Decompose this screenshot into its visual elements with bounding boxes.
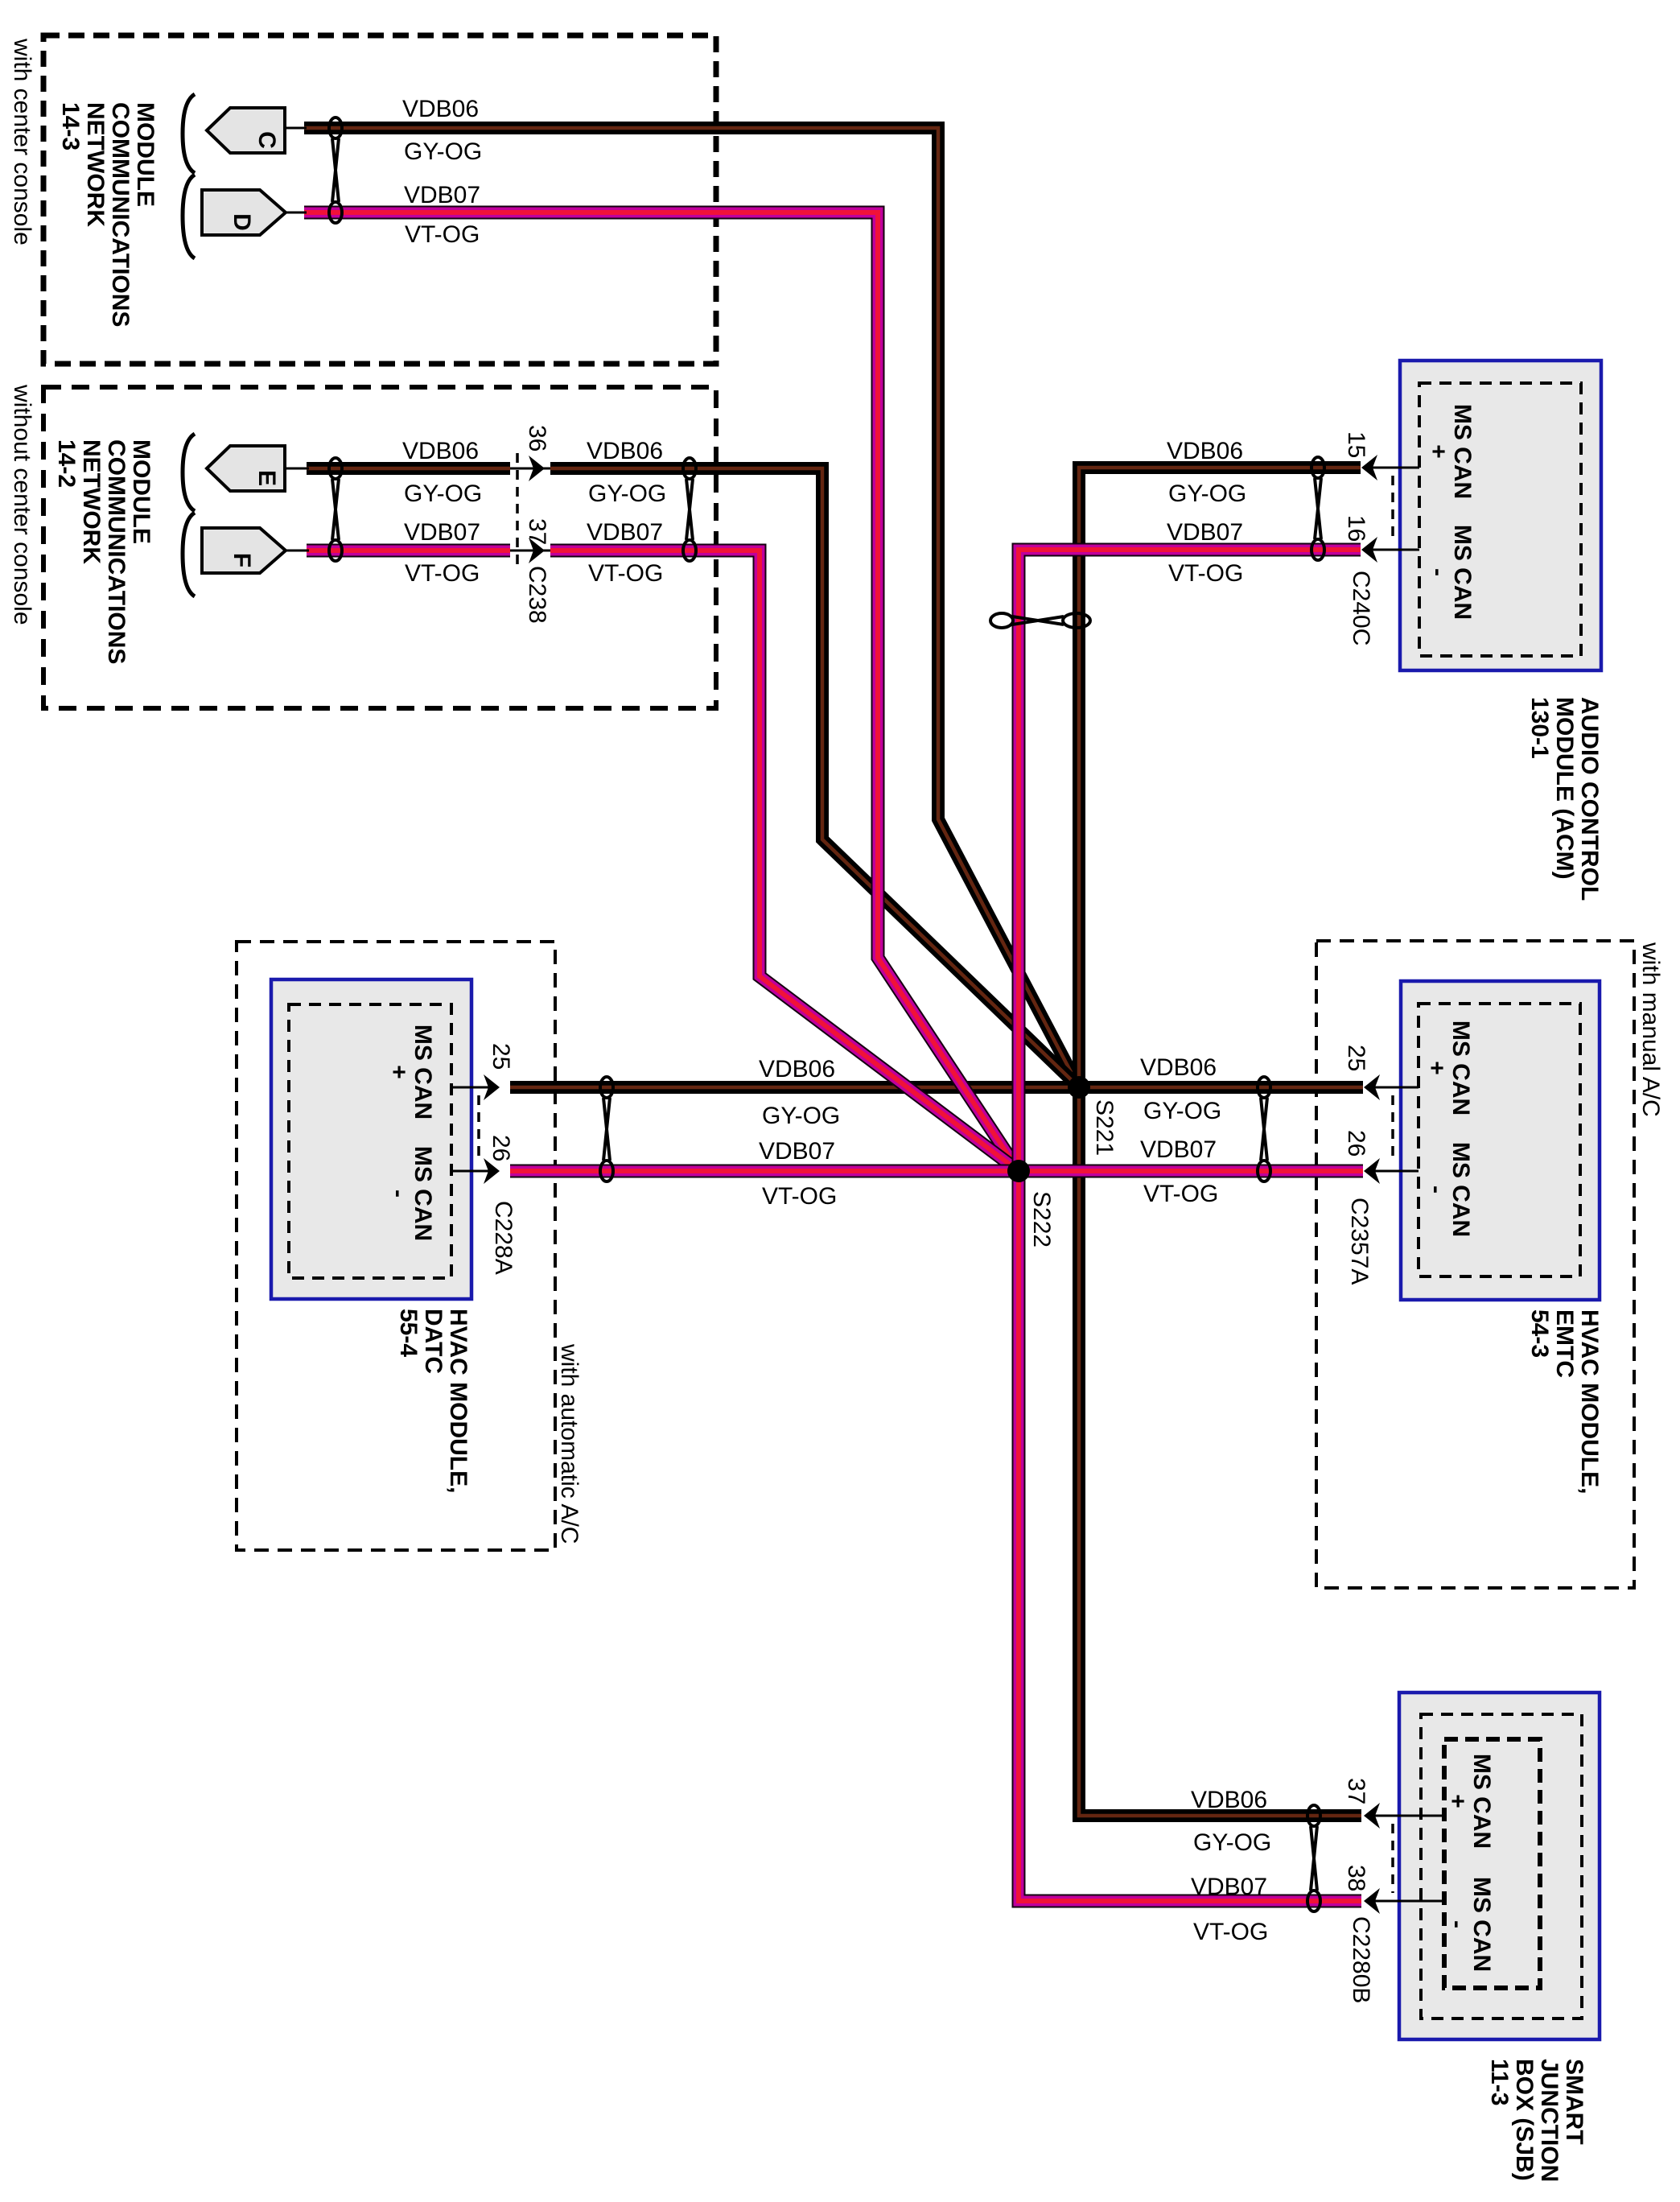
twisted pair symbol at SJB [1307, 1805, 1320, 1911]
svg-text:MS CAN: MS CAN [410, 1146, 436, 1241]
svg-text:C2357A: C2357A [1346, 1198, 1373, 1284]
svg-text:C2280B: C2280B [1348, 1916, 1374, 2003]
svg-text:NETWORK: NETWORK [78, 439, 105, 564]
svg-text:E: E [253, 470, 280, 486]
ACM pin 16 arrow [1361, 537, 1419, 563]
svg-text:VT-OG: VT-OG [1168, 560, 1243, 587]
svg-text:38: 38 [1343, 1865, 1369, 1891]
svg-text:VT-OG: VT-OG [762, 1183, 837, 1210]
svg-text:SMART: SMART [1561, 2059, 1587, 2145]
twisted pair symbol at C/D [329, 118, 342, 223]
wire VDB07 VT-OG from connector D (violet with red trace) [304, 212, 1019, 1171]
wire VDB06 GY-OG from connector C (black with brown trace) [304, 128, 1079, 1087]
label MODULE COMMUNICATIONS NETWORK 14-3 [57, 102, 159, 327]
SJB pin 37 arrow [1364, 1803, 1444, 1829]
svg-text:MS CAN: MS CAN [1449, 525, 1476, 620]
DATC pin 26 arrow [451, 1158, 500, 1184]
twisted pair symbol on bus left of S221 [600, 1077, 613, 1181]
svg-text:C240C: C240C [1348, 571, 1374, 645]
splice S221 [1068, 1076, 1090, 1099]
svg-text:VDB06: VDB06 [402, 96, 479, 122]
svg-text:25: 25 [1343, 1045, 1369, 1071]
svg-text:-: - [385, 1190, 412, 1198]
svg-text:11-3: 11-3 [1486, 2059, 1513, 2105]
twisted pair symbol at E/F [329, 458, 342, 561]
svg-text:37: 37 [524, 518, 550, 545]
svg-text:without center console: without center console [9, 384, 35, 625]
module box U-ACM: AUDIO CONTROL MODULE [1400, 361, 1601, 670]
C238 pin 37 arrow [510, 538, 550, 563]
svg-text:DATC: DATC [420, 1309, 447, 1374]
svg-text:MS CAN: MS CAN [1447, 1021, 1474, 1115]
svg-text:-: - [1444, 1920, 1471, 1928]
svg-text:MODULE: MODULE [132, 102, 159, 207]
svg-text:VDB07: VDB07 [1167, 519, 1243, 546]
svg-text:VDB06: VDB06 [1191, 1787, 1267, 1813]
svg-text:-: - [1423, 1186, 1450, 1194]
svg-text:VDB07: VDB07 [1140, 1136, 1217, 1163]
EMTC pin 26 arrow [1364, 1158, 1419, 1184]
twisted pair symbol on vertical trunk [990, 613, 1090, 628]
svg-text:VDB07: VDB07 [404, 519, 480, 546]
label AUDIO CONTROL MODULE (ACM) 130-1 [1526, 697, 1603, 901]
twisted pair symbol right of C238 [683, 458, 696, 561]
svg-text:VT-OG: VT-OG [405, 221, 480, 248]
svg-text:MS CAN: MS CAN [1449, 404, 1476, 499]
svg-text:S222: S222 [1028, 1191, 1055, 1247]
svg-text:36: 36 [524, 425, 550, 452]
module box U-DATC: HVAC MODULE DATC [271, 979, 471, 1299]
svg-text:VT-OG: VT-OG [1193, 1919, 1268, 1945]
svg-text:HVAC MODULE,: HVAC MODULE, [445, 1309, 471, 1493]
svg-text:C228A: C228A [490, 1201, 517, 1275]
svg-text:VT-OG: VT-OG [1143, 1181, 1218, 1207]
svg-text:GY-OG: GY-OG [762, 1103, 840, 1129]
svg-text:with manual A/C: with manual A/C [1637, 942, 1664, 1117]
svg-text:GY-OG: GY-OG [1143, 1098, 1221, 1124]
svg-text:VDB06: VDB06 [1167, 438, 1243, 464]
SJB connector dashed line C2280B [1391, 1824, 1394, 1893]
label HVAC MODULE DATC 55-4 [395, 1309, 471, 1493]
svg-text:MS CAN: MS CAN [1468, 1754, 1495, 1849]
brace for connectors C/D [183, 94, 195, 258]
svg-text:VDB06: VDB06 [1140, 1054, 1217, 1081]
wire VDB07 VT-OG from connector F (violet with red trace) [307, 550, 1019, 1171]
svg-text:D: D [229, 213, 255, 231]
svg-text:VDB07: VDB07 [759, 1138, 835, 1165]
svg-text:VT-OG: VT-OG [588, 560, 663, 587]
svg-text:MS CAN: MS CAN [1468, 1877, 1495, 1972]
EMTC connector dashed line C2357A [1391, 1095, 1394, 1163]
svg-text:16: 16 [1343, 515, 1369, 542]
svg-text:26: 26 [1343, 1130, 1369, 1157]
module box U-EMTC: HVAC MODULE EMTC [1401, 981, 1600, 1300]
svg-text:-: - [1425, 568, 1451, 576]
svg-text:with automatic A/C: with automatic A/C [556, 1343, 583, 1544]
svg-text:VDB06: VDB06 [587, 438, 663, 464]
svg-text:+: + [1423, 1061, 1450, 1075]
svg-text:+: + [385, 1065, 412, 1079]
svg-text:C: C [253, 131, 280, 149]
svg-text:55-4: 55-4 [395, 1309, 422, 1357]
wire VDB06 GY-OG: ACM pin15 branch, vertical trunk and SJB pin37 branch [1079, 468, 1361, 1816]
svg-text:VDB07: VDB07 [587, 519, 663, 546]
svg-text:F: F [229, 553, 255, 567]
svg-text:VDB06: VDB06 [402, 438, 479, 464]
label SMART JUNCTION BOX (SJB) 11-3 [1486, 2059, 1587, 2182]
wire VDB07 VT-OG: ACM pin16 branch, vertical trunk and SJB pin38 branch [1019, 550, 1361, 1901]
svg-text:15: 15 [1343, 431, 1369, 458]
svg-text:+: + [1425, 444, 1451, 459]
twisted pair symbol at ACM [1311, 457, 1324, 560]
wire VDB06 GY-OG: horizontal bus DATC pin25 to EMTC pin25 through S221 [510, 1081, 1363, 1094]
svg-text:37: 37 [1343, 1778, 1369, 1804]
svg-text:130-1: 130-1 [1526, 697, 1553, 759]
svg-text:GY-OG: GY-OG [588, 480, 666, 507]
svg-text:COMMUNICATIONS: COMMUNICATIONS [107, 102, 134, 327]
svg-text:JUNCTION: JUNCTION [1536, 2059, 1563, 2182]
connector pin C [207, 108, 307, 153]
svg-text:GY-OG: GY-OG [404, 480, 482, 507]
svg-text:14-3: 14-3 [57, 102, 84, 151]
svg-text:MODULE (ACM): MODULE (ACM) [1551, 697, 1578, 880]
svg-text:14-2: 14-2 [53, 439, 80, 488]
svg-text:VDB06: VDB06 [759, 1056, 835, 1082]
svg-text:GY-OG: GY-OG [1193, 1829, 1271, 1856]
svg-text:VT-OG: VT-OG [405, 560, 480, 587]
svg-text:BOX (SJB): BOX (SJB) [1511, 2059, 1538, 2181]
svg-text:S221: S221 [1091, 1099, 1118, 1156]
connector pin F [202, 528, 309, 573]
DATC pin 25 arrow [451, 1074, 500, 1100]
svg-text:MS CAN: MS CAN [1447, 1142, 1474, 1237]
dashed option box: MODULE COMMUNICATIONS NETWORK 14-2 (without center console) [43, 387, 716, 708]
ACM connector dashed line C240C [1391, 476, 1394, 542]
svg-text:COMMUNICATIONS: COMMUNICATIONS [103, 439, 130, 664]
svg-text:VDB07: VDB07 [1191, 1874, 1267, 1900]
dashed option box: MODULE COMMUNICATIONS NETWORK 14-3 (with center console) [43, 35, 716, 364]
svg-text:MODULE: MODULE [128, 439, 154, 544]
svg-text:with center console: with center console [9, 38, 35, 245]
dashed option box: HVAC MODULE DATC (with automatic A/C) [237, 942, 555, 1550]
svg-text:HVAC MODULE,: HVAC MODULE, [1576, 1309, 1603, 1494]
svg-text:C238: C238 [524, 566, 550, 624]
svg-text:MS CAN: MS CAN [410, 1025, 436, 1120]
svg-text:GY-OG: GY-OG [404, 138, 482, 165]
splice S222 [1007, 1160, 1030, 1182]
inline connector C238 dashed line [516, 453, 519, 571]
wire VDB07 VT-OG: horizontal bus DATC pin26 to EMTC pin26 through S222 [510, 1165, 1363, 1178]
C238 pin 36 arrow [510, 456, 550, 481]
svg-text:25: 25 [488, 1043, 514, 1070]
ACM pin 15 arrow [1361, 455, 1419, 480]
svg-text:+: + [1444, 1794, 1471, 1808]
connector pin D [202, 190, 307, 235]
label HVAC MODULE EMTC 54-3 [1526, 1309, 1603, 1494]
label MODULE COMMUNICATIONS NETWORK 14-2 [53, 439, 154, 664]
svg-text:VDB07: VDB07 [404, 182, 480, 208]
svg-text:NETWORK: NETWORK [82, 102, 109, 227]
wire VDB06 GY-OG from connector E (black with brown trace) [307, 468, 1079, 1087]
brace for connectors E/F [183, 434, 195, 596]
module box U-SJB: SMART JUNCTION BOX [1399, 1693, 1600, 2039]
dashed option box: HVAC MODULE EMTC (with manual A/C) [1316, 941, 1634, 1588]
connector pin E [207, 446, 309, 491]
svg-text:GY-OG: GY-OG [1168, 480, 1246, 507]
EMTC pin 25 arrow [1364, 1074, 1419, 1100]
svg-text:26: 26 [488, 1135, 514, 1161]
DATC connector dashed line C228A [477, 1095, 480, 1163]
SJB pin 38 arrow [1364, 1888, 1444, 1914]
twisted pair symbol on bus right of S221 [1258, 1077, 1270, 1181]
svg-text:54-3: 54-3 [1526, 1309, 1553, 1358]
svg-text:EMTC: EMTC [1551, 1309, 1578, 1378]
svg-text:AUDIO CONTROL: AUDIO CONTROL [1576, 697, 1603, 901]
